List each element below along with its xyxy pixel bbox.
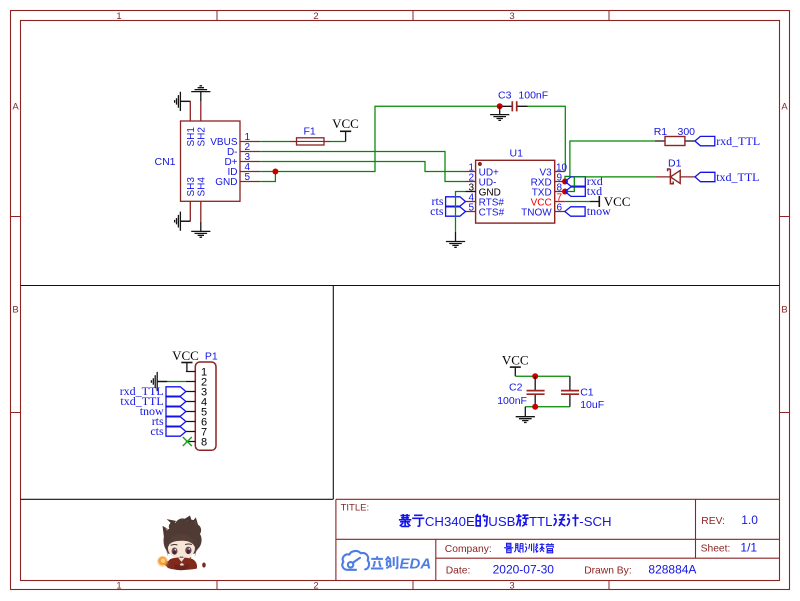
svg-text:EDA: EDA <box>400 556 432 573</box>
title text: 基于CH340E的USB转TTL设计-SCH <box>399 514 579 526</box>
svg-text:Drawn By:: Drawn By: <box>584 566 632 577</box>
diode D1 (schottky) <box>655 169 695 184</box>
svg-text:C1: C1 <box>580 386 594 398</box>
svg-text:C3: C3 <box>498 90 512 102</box>
svg-text:1.0: 1.0 <box>741 513 758 527</box>
title block border lines <box>336 499 780 580</box>
svg-text:300: 300 <box>678 126 696 138</box>
wire ID/GND net to C3 <box>260 106 500 171</box>
svg-text:1: 1 <box>116 581 121 592</box>
wire C3 right to U1 V3 <box>528 106 566 171</box>
svg-text:1: 1 <box>116 11 121 22</box>
svg-text:rxd_TTL: rxd_TTL <box>716 134 760 148</box>
junction at C2 bottom <box>532 404 538 410</box>
svg-text:TITLE:: TITLE: <box>341 503 370 514</box>
VCC symbol at F1 <box>340 131 351 141</box>
svg-text:A: A <box>12 102 19 113</box>
svg-text:USB: USB <box>488 514 515 529</box>
ground at C2 <box>516 407 535 423</box>
U1 pin3 GND lead (black) <box>466 191 476 193</box>
no-connect X at P1 pin8 <box>183 437 192 446</box>
ground at SH4 (down-pointing) <box>191 221 210 237</box>
ground at SH1 (left-pointing) <box>175 92 191 111</box>
header P1 <box>186 350 218 450</box>
svg-text:CTS#: CTS# <box>479 207 505 218</box>
net flag tnow at P1 pin5 <box>166 407 186 416</box>
svg-text:C2: C2 <box>509 382 523 394</box>
svg-text:100nF: 100nF <box>518 90 548 102</box>
svg-text:8: 8 <box>201 436 207 448</box>
LCEDA logo cloud icon <box>342 551 369 570</box>
USB connector CN1 <box>155 101 261 221</box>
partition line horizontal <box>21 285 780 287</box>
net flag cts at P1 pin7 <box>166 427 186 436</box>
svg-text:2: 2 <box>313 11 318 22</box>
svg-text:828884A: 828884A <box>648 563 696 577</box>
net flag cts at U1 pin5 <box>446 207 466 216</box>
svg-text:TNOW: TNOW <box>521 207 552 218</box>
junction at TXD pin8 <box>562 189 568 195</box>
svg-text:1/1: 1/1 <box>740 541 757 555</box>
svg-text:CN1: CN1 <box>155 156 176 168</box>
svg-text:Date:: Date: <box>446 566 471 577</box>
svg-text:SH2: SH2 <box>197 127 208 147</box>
svg-text:B: B <box>781 305 787 316</box>
capacitor C3 100nF <box>498 90 548 112</box>
wire P1 pin2 to ground <box>166 381 186 383</box>
CN1 pin leads <box>190 101 260 221</box>
svg-text:3: 3 <box>509 11 514 22</box>
wire U1 GND pin3 down <box>456 192 466 232</box>
junction at ID node <box>272 169 278 175</box>
avatar image bottom-left <box>157 516 206 571</box>
net flag rxd at U1 pin9 <box>565 177 585 186</box>
wire RXD to R1 <box>565 141 655 182</box>
svg-text:D1: D1 <box>668 157 682 169</box>
ground at P1 pin2 (left-pointing) <box>151 372 167 391</box>
svg-text:SH1: SH1 <box>186 127 197 147</box>
ground at SH3 (left-pointing) <box>175 212 191 231</box>
svg-text:-SCH: -SCH <box>579 514 611 529</box>
wire GND pin5 riser <box>260 172 275 182</box>
svg-text:Sheet:: Sheet: <box>701 544 731 555</box>
partition line bottom-left <box>21 498 334 500</box>
wire D- to U1 UD- <box>260 152 465 182</box>
svg-text:R1: R1 <box>654 126 668 138</box>
net flag rts at U1 pin4 <box>446 197 466 206</box>
svg-text:B: B <box>12 305 18 316</box>
svg-text:VCC: VCC <box>332 116 359 131</box>
wire D+ to U1 UD+ <box>260 162 465 172</box>
svg-text:2: 2 <box>313 581 318 592</box>
ground at C3 <box>490 106 509 120</box>
junction at C3 left <box>497 103 503 109</box>
capacitor C1 10uF <box>561 376 604 411</box>
wire VBUS to F1 <box>260 141 290 143</box>
svg-text:GND: GND <box>215 177 237 188</box>
wire F1 to VCC <box>330 141 346 143</box>
net flag rxd_TTL <box>695 136 715 145</box>
svg-text:Company:: Company: <box>445 544 492 555</box>
net flag rts at P1 pin6 <box>166 417 186 426</box>
svg-text:2020-07-30: 2020-07-30 <box>493 563 555 577</box>
VCC symbol at U1 pin7 (rotated) <box>590 196 600 207</box>
svg-text:tnow: tnow <box>587 204 611 218</box>
net flag txd_TTL <box>695 172 715 181</box>
svg-text:VCC: VCC <box>172 348 199 363</box>
svg-text:F1: F1 <box>304 125 316 137</box>
svg-text:SH4: SH4 <box>197 177 208 197</box>
svg-text:REV:: REV: <box>701 516 725 527</box>
svg-text:6: 6 <box>557 202 563 213</box>
net flag txd_TTL at P1 pin4 <box>166 397 186 406</box>
svg-text:5: 5 <box>468 202 474 213</box>
svg-text:100nF: 100nF <box>497 395 527 407</box>
wire ground rail bottom <box>525 406 570 408</box>
partition line vertical <box>332 286 334 500</box>
junction at RXD pin9 <box>562 179 568 185</box>
junction at C2 top <box>532 373 538 379</box>
ground at SH2 (up-pointing) <box>191 86 210 102</box>
svg-text:CH340E: CH340E <box>425 514 475 529</box>
svg-text:cts: cts <box>430 204 444 218</box>
net flag rxd_TTL at P1 pin3 <box>166 387 186 396</box>
ground below U1 <box>446 232 465 248</box>
net flag tnow at U1 pin6 <box>565 207 585 216</box>
svg-text:VCC: VCC <box>502 352 529 367</box>
wire VCC pin7 <box>565 201 590 203</box>
svg-text:10uF: 10uF <box>580 399 604 411</box>
net flag txd at U1 pin8 <box>565 187 585 196</box>
svg-text:A: A <box>781 102 788 113</box>
wire VCC rail top <box>515 375 570 377</box>
svg-text:3: 3 <box>509 581 514 592</box>
svg-text:txd_TTL: txd_TTL <box>716 170 759 184</box>
VCC symbol at P1 pin1 <box>181 363 192 372</box>
svg-text:P1: P1 <box>205 350 218 362</box>
IC U1 CH340E <box>466 147 568 223</box>
svg-text:TTL: TTL <box>529 514 552 529</box>
svg-text:SH3: SH3 <box>186 177 197 197</box>
LCEDA logo text 立创EDA <box>371 556 398 568</box>
svg-text:cts: cts <box>150 424 164 438</box>
capacitor C2 100nF <box>497 376 544 407</box>
svg-text:U1: U1 <box>510 147 524 159</box>
wire TXD to D1 <box>565 177 655 192</box>
U1 pin7 VCC lead (red) <box>555 201 565 203</box>
resistor R1 300 <box>654 126 695 146</box>
fuse F1 <box>290 125 330 145</box>
